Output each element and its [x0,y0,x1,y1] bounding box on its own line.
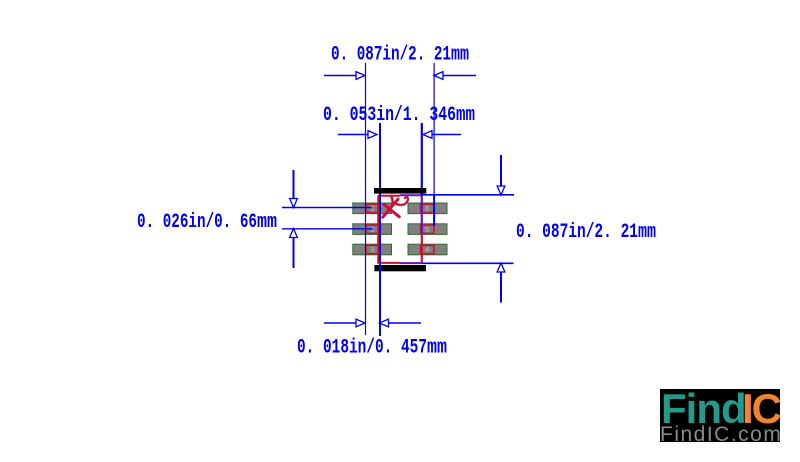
dim ext line x=365 [365,63,367,335]
svg-text:mm: mm [638,221,656,244]
package top bar [374,188,426,194]
pad 4 [408,244,447,255]
pin 6 contact [421,204,434,212]
pad 3 [353,244,392,255]
pin 1 marker scribble [391,196,393,203]
dim arrow line top 0.087 left [324,75,363,77]
svg-text:4: 4 [425,247,429,254]
pin 4 contact [421,245,434,253]
bottom dim arrow line left [324,322,363,324]
right dim ext line bottom [422,262,514,264]
dim ext line x=380 (beside body left edge) [379,123,381,336]
svg-text:mm: mm [456,104,475,127]
left dim lower stem [293,232,295,268]
pad 2 [353,224,392,235]
pad 5 [408,224,447,235]
FindIC logo [660,389,780,442]
pin 5 contact [421,225,434,233]
body outline right edge [421,234,423,264]
svg-text:mm: mm [257,211,277,234]
svg-text:0. 087in/2. 21: 0. 087in/2. 21 [516,221,638,244]
right dim lower stem [500,267,502,303]
svg-text:6: 6 [425,206,429,213]
dim arrow line 0.053 left [338,134,375,136]
svg-text:1: 1 [371,206,375,213]
right dim ext line top [422,194,514,196]
bottom dim arrow line right [382,322,421,324]
pin 3 contact [366,245,379,253]
package bottom bar [374,265,426,271]
logo wordmark FindIC [660,389,780,442]
body outline left edge [377,196,379,264]
left dim upper stem [293,170,295,204]
svg-text:2: 2 [371,227,375,234]
pad 1 [353,203,392,214]
body outline top edge [378,195,400,197]
svg-text:0. 018in/0. 457: 0. 018in/0. 457 [297,337,427,360]
right dim upper stem [500,155,502,192]
dim ext line x=421.8 (over body right edge) [421,123,423,196]
pin 2 contact [366,225,379,233]
body outline bottom edge [378,262,400,264]
left dim line at pad1 center [282,207,373,209]
svg-text:0. 053in/1. 346: 0. 053in/1. 346 [323,104,456,127]
dim arrow line top 0.087 right [436,75,476,77]
svg-text:mm: mm [427,337,447,360]
svg-text:3: 3 [371,247,375,254]
dim ext line x=434 [433,63,435,195]
svg-text:0. 026in/0. 66: 0. 026in/0. 66 [137,211,257,234]
pad 6 [408,203,447,214]
left dim line at pad2 center [282,228,373,230]
svg-text:0. 087in/2. 21: 0. 087in/2. 21 [331,44,451,67]
pin 1 contact [366,204,379,212]
svg-text:5: 5 [425,227,429,234]
svg-text:mm: mm [451,44,469,67]
logo url FindIC.com [660,423,782,447]
dim arrow line 0.053 right [425,134,462,136]
